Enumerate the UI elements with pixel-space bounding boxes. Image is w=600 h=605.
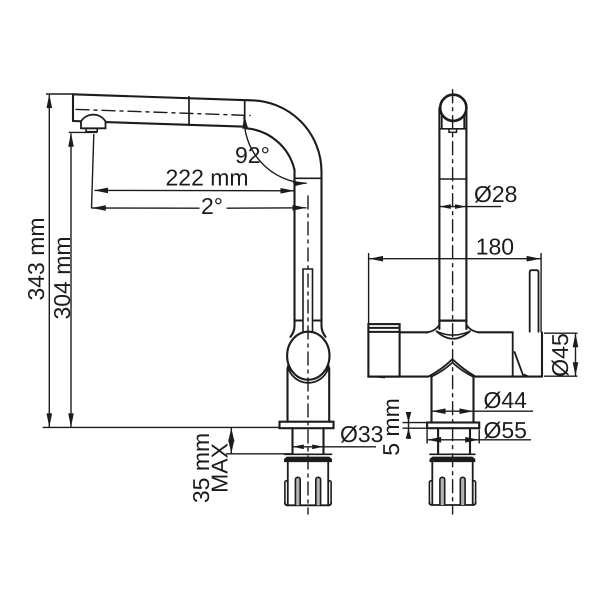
fillet pipe right xyxy=(466,325,478,333)
dim 304 line xyxy=(70,134,72,428)
dim 35mm bottom extension xyxy=(226,453,293,455)
elbow start junction line xyxy=(244,100,246,127)
cone tent inner xyxy=(431,363,474,377)
front column left edge xyxy=(430,377,432,423)
dim 5mm line xyxy=(408,412,410,439)
dim 92 arc xyxy=(244,115,307,183)
spout arm bottom edge xyxy=(73,121,246,127)
shank right edge xyxy=(322,428,324,454)
wedge mark right xyxy=(524,374,530,378)
fillet pipe left xyxy=(428,325,440,333)
nut slot right xyxy=(316,477,321,505)
arrow 222 right xyxy=(281,188,295,194)
mounting nut front view body xyxy=(432,462,472,505)
wedge mark left xyxy=(373,376,386,379)
dim 35mm line xyxy=(230,428,232,454)
elbow outer arc xyxy=(251,100,322,172)
knob groove 2 xyxy=(368,331,399,333)
front nut slot right xyxy=(460,477,465,505)
front nut bottom edge xyxy=(429,503,475,506)
arrow O55 left xyxy=(427,437,441,443)
sphere cartridge body xyxy=(287,332,329,380)
svg-text:Ø45: Ø45 xyxy=(547,333,573,376)
mounting nut left view body xyxy=(288,462,328,505)
handle mount taper xyxy=(515,352,524,376)
arrow 222 left xyxy=(94,188,108,194)
spout arm left end cap xyxy=(72,94,74,121)
inner hose left line xyxy=(302,269,304,332)
arrow 5mm top xyxy=(406,412,412,423)
dim 5mm extension bottom xyxy=(403,427,428,429)
front shank left edge xyxy=(437,428,439,454)
shank left edge xyxy=(291,428,293,454)
front pipe right edge xyxy=(465,108,467,329)
arrow O28 right xyxy=(455,204,466,209)
svg-text:180: 180 xyxy=(476,234,514,260)
collar front view top line xyxy=(430,453,475,455)
dim 180 extension left xyxy=(368,253,370,324)
arrow 343 top xyxy=(47,94,53,108)
svg-text:Ø28: Ø28 xyxy=(474,181,517,207)
arrow O44 left xyxy=(432,408,446,414)
ARROWHEADS xyxy=(47,94,579,454)
front pipe joint line lower xyxy=(439,319,466,321)
base flange front view xyxy=(427,423,479,429)
body bottom edge right part xyxy=(476,376,543,378)
collar left view top line xyxy=(284,453,331,455)
nut outer flute right xyxy=(328,481,331,504)
front nut outer flute right xyxy=(473,481,476,503)
arrow 35mm up xyxy=(228,428,234,442)
dim O55 extension left xyxy=(426,430,428,444)
dim 222 extension / 2deg extension xyxy=(92,134,94,209)
body top edge left part xyxy=(400,331,428,333)
front shank right edge xyxy=(469,428,471,454)
arrow 304 bottom xyxy=(68,413,74,427)
front nut slot left xyxy=(440,477,445,505)
countertop reference line xyxy=(43,426,280,428)
dim 343 extension top xyxy=(46,93,73,95)
dim O44 line xyxy=(432,410,534,412)
dim 2deg line left xyxy=(92,207,200,209)
dim 2deg line right xyxy=(227,207,307,209)
dim O45 extension bottom xyxy=(544,375,578,377)
svg-text:222 mm: 222 mm xyxy=(166,165,249,191)
dim O33 line xyxy=(293,446,377,448)
front pipe left edge xyxy=(438,108,440,329)
elbow inner arc xyxy=(246,128,295,170)
arrow 92 bottom xyxy=(293,181,307,187)
saddle curve outer xyxy=(437,331,471,338)
arrow O44 right xyxy=(460,408,474,414)
pipe joint ticks lower xyxy=(295,320,303,322)
dim O55 extension right xyxy=(478,430,480,444)
cone tent outer xyxy=(428,359,476,377)
dim 180 line xyxy=(369,258,541,260)
aerator tip tab xyxy=(86,128,97,131)
arrow O55 right xyxy=(465,437,479,443)
svg-text:MAX: MAX xyxy=(207,443,233,493)
pipe joint line upper xyxy=(295,177,322,179)
arrow O45 bottom xyxy=(573,362,579,376)
dim 304 extension top xyxy=(69,131,97,133)
bracket left xyxy=(441,116,443,129)
pipe right edge xyxy=(322,172,326,337)
front nut outer flute left xyxy=(429,481,432,503)
spout arm top edge xyxy=(73,94,251,100)
body column right edge xyxy=(328,368,330,422)
spout tip circle xyxy=(440,95,466,121)
bracket bottom xyxy=(439,128,466,130)
dim 5mm extension top xyxy=(403,422,428,424)
arrow 5mm bottom xyxy=(406,428,412,439)
front pipe joint line xyxy=(439,178,466,180)
arrow 180 left xyxy=(369,256,383,262)
arrow O45 top xyxy=(573,333,579,347)
arrow 304 top xyxy=(68,133,74,147)
svg-text:92°: 92° xyxy=(235,142,270,168)
svg-text:Ø44: Ø44 xyxy=(484,387,528,413)
body top edge right part xyxy=(478,331,512,333)
arrow 2deg left xyxy=(92,205,106,211)
svg-text:304 mm: 304 mm xyxy=(49,236,75,319)
handle bar xyxy=(530,270,539,332)
aerator head dome xyxy=(81,115,106,129)
inner hose right line xyxy=(312,269,314,332)
knob groove 1 xyxy=(368,327,399,329)
arrow O33 left xyxy=(293,445,304,450)
front column right edge xyxy=(472,377,474,423)
dim O45 line xyxy=(575,333,577,376)
bracket right xyxy=(463,116,465,129)
arrow 92 top xyxy=(242,115,248,129)
bracket tab xyxy=(449,129,457,133)
dim 180 extension right xyxy=(540,253,542,332)
front centerline xyxy=(452,90,454,514)
nut bottom edge xyxy=(285,503,331,506)
dim O28 line xyxy=(439,206,501,208)
collar left view dark band xyxy=(284,457,331,462)
svg-text:Ø55: Ø55 xyxy=(484,417,527,443)
handle mount line xyxy=(512,332,514,376)
pipe centerline xyxy=(307,196,309,514)
body right end cap xyxy=(541,333,543,377)
saddle curve inner xyxy=(437,331,471,335)
arrow 180 right xyxy=(527,256,541,262)
arrow 343 bottom xyxy=(47,413,53,427)
svg-text:343 mm: 343 mm xyxy=(23,217,49,300)
DIMENSIONS xyxy=(43,94,578,454)
spout arm centerline xyxy=(76,109,250,115)
svg-text:2°: 2° xyxy=(201,193,223,219)
nut outer flute left xyxy=(285,481,288,504)
arrow 2deg right xyxy=(293,205,307,211)
dim O55 line xyxy=(427,439,531,441)
spout arm junction line xyxy=(188,97,190,126)
sphere bottom cup arc xyxy=(288,366,329,383)
body bottom edge left part xyxy=(368,376,428,378)
collar front view dark band xyxy=(430,457,475,462)
inner hose top cap xyxy=(303,268,313,270)
dim 222 line xyxy=(95,189,295,191)
arrow 35mm down xyxy=(228,440,234,454)
dim 343 line xyxy=(48,95,50,427)
dim O45 extension top xyxy=(544,332,578,334)
pipe left edge xyxy=(291,170,295,337)
svg-text:5 mm: 5 mm xyxy=(378,398,404,456)
base flange left view xyxy=(280,422,334,429)
nut slot left xyxy=(295,477,300,505)
body column left edge xyxy=(286,368,288,422)
arrow O33 right xyxy=(312,445,323,450)
left knob of body xyxy=(368,324,399,377)
svg-text:Ø33: Ø33 xyxy=(340,421,383,447)
arrow O28 left xyxy=(439,204,450,209)
